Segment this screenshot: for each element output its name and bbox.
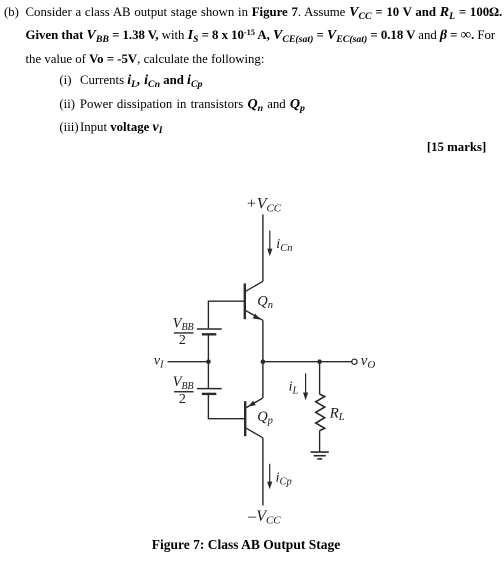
wire battery B1 to input node: [207, 336, 209, 362]
node output junction: [261, 359, 266, 364]
ground: [311, 452, 329, 459]
svg-text:vI: vI: [154, 354, 164, 371]
svg-text:2: 2: [179, 392, 186, 407]
figure caption: [152, 538, 340, 552]
list item (iii): [59, 121, 162, 135]
wire RL to ground: [319, 431, 321, 452]
list item (i): [59, 74, 202, 88]
current arrow iCn: [267, 231, 272, 257]
wire input node to battery B2: [207, 362, 209, 388]
svg-text:VBB: VBB: [173, 315, 194, 333]
svg-text:Qp: Qp: [257, 409, 273, 427]
label VBB/2 (top): [173, 315, 194, 348]
terminal vO open circle: [352, 359, 357, 364]
current arrow iCp: [267, 464, 272, 490]
wire battery B2 to Qp base: [208, 395, 244, 419]
problem statement line 2: [26, 29, 496, 43]
node input junction: [206, 359, 211, 364]
current arrow iL: [303, 373, 308, 400]
node RL junction: [317, 359, 322, 364]
svg-text:Qn: Qn: [257, 293, 273, 311]
wire Qn base to battery B1: [208, 301, 244, 328]
label VBB/2 (bottom): [173, 374, 194, 407]
svg-text:VBB: VBB: [173, 374, 194, 392]
wire output to RL: [319, 362, 321, 394]
transistor Qn (NPN): [245, 281, 263, 320]
battery B1 VBB/2: [197, 329, 222, 334]
list item (ii): [59, 98, 305, 112]
wire +VCC to Qn collector: [262, 215, 264, 282]
wire Qn emitter to output node: [262, 320, 264, 361]
wire Qp collector to -VCC: [262, 438, 264, 506]
svg-text:iCn: iCn: [276, 237, 292, 254]
svg-text:+VCC: +VCC: [246, 196, 282, 215]
transistor Qp (PNP): [245, 398, 263, 438]
wire output node to terminal vO: [263, 361, 352, 363]
svg-text:–VCC: –VCC: [247, 508, 281, 527]
battery B2 VBB/2: [197, 389, 222, 394]
svg-text:iL: iL: [289, 379, 299, 396]
svg-text:2: 2: [179, 333, 186, 348]
svg-text:iCp: iCp: [276, 471, 292, 488]
marks: [427, 141, 486, 154]
problem statement line 1: [4, 6, 502, 20]
wire output node to Qp emitter: [262, 362, 264, 398]
resistor RL: [316, 394, 325, 431]
problem statement line 3: [26, 53, 265, 66]
wire input vI: [168, 361, 209, 363]
svg-text:RL: RL: [329, 405, 345, 423]
svg-text:vO: vO: [361, 353, 376, 371]
